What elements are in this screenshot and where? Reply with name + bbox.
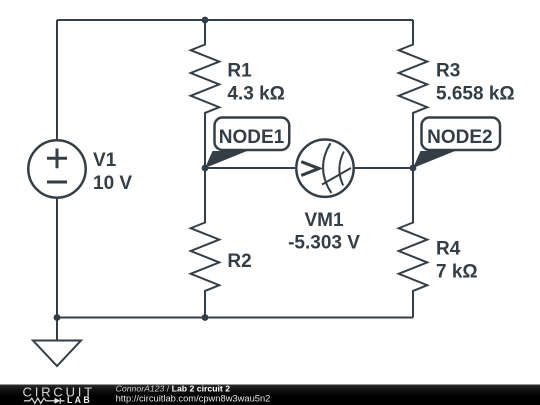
CircuitLab logo wordmark — [23, 384, 95, 405]
svg-text:R2: R2 — [227, 251, 251, 272]
svg-text:VM1: VM1 — [304, 210, 344, 231]
logo resistor squiggle and diode — [24, 398, 55, 403]
svg-text:NODE1: NODE1 — [219, 127, 285, 148]
node NODE2 flag — [413, 118, 500, 169]
wire VM1 to node2 — [355, 167, 413, 169]
ground — [33, 318, 81, 367]
resistor R3 — [399, 20, 515, 168]
svg-text:-5.303 V: -5.303 V — [288, 233, 360, 254]
resistor R2 — [191, 168, 252, 318]
junction dot node A (NODE1) — [202, 165, 209, 172]
svg-text:10 V: 10 V — [93, 173, 132, 194]
wire node1 to VM1 — [205, 167, 295, 169]
svg-text:R1: R1 — [227, 60, 252, 81]
svg-text:V1: V1 — [93, 150, 117, 171]
svg-text:5.658 kΩ: 5.658 kΩ — [436, 84, 515, 105]
voltage source V1 — [28, 140, 132, 197]
node NODE1 flag — [205, 118, 289, 169]
svg-text:LAB: LAB — [67, 395, 92, 405]
junction dot node B (NODE2) — [410, 165, 417, 172]
svg-text:7 kΩ: 7 kΩ — [436, 262, 478, 283]
svg-text:R3: R3 — [436, 60, 460, 81]
wire left rail upper — [56, 20, 58, 139]
svg-text:R4: R4 — [436, 239, 461, 260]
svg-text:NODE2: NODE2 — [427, 127, 492, 148]
wire top rail — [57, 19, 413, 21]
resistor R4 — [399, 168, 478, 318]
voltmeter VM1 — [288, 140, 360, 254]
junction dot bottom R2 — [202, 314, 209, 321]
junction dot top (R1 top) — [202, 17, 209, 24]
junction dot bottom left — [54, 314, 61, 321]
wire left rail lower — [56, 199, 58, 318]
wire bottom rail — [57, 317, 413, 319]
svg-text:ConnorA123 / Lab 2 circuit 2: ConnorA123 / Lab 2 circuit 2 — [116, 384, 231, 394]
svg-text:4.3 kΩ: 4.3 kΩ — [227, 84, 285, 105]
resistor R1 — [191, 20, 285, 168]
svg-text:http://circuitlab.com/cpwn8w3w: http://circuitlab.com/cpwn8w3wau5n2 — [116, 393, 271, 403]
